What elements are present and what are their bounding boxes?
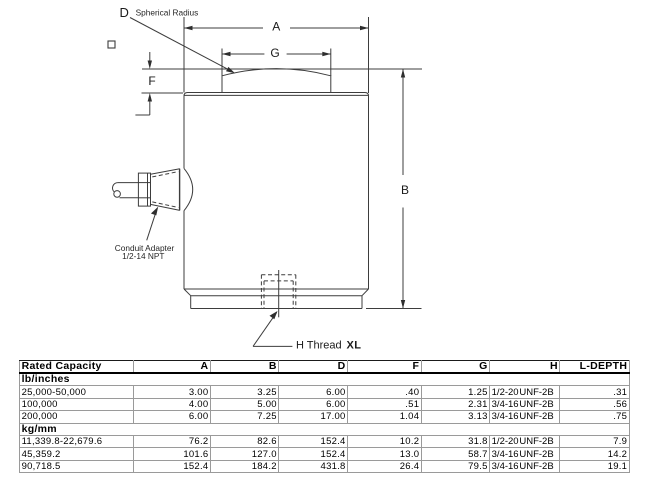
svg-text:G: G — [270, 46, 279, 60]
svg-text:B: B — [401, 183, 409, 197]
svg-text:D: D — [120, 5, 129, 20]
svg-text:1/2-14 NPT: 1/2-14 NPT — [122, 251, 164, 261]
svg-text:H Thread: H Thread — [296, 340, 342, 352]
svg-text:F: F — [148, 74, 155, 88]
svg-text:A: A — [272, 20, 280, 34]
svg-text:Spherical Radius: Spherical Radius — [136, 8, 199, 18]
svg-text:XL: XL — [347, 340, 362, 352]
